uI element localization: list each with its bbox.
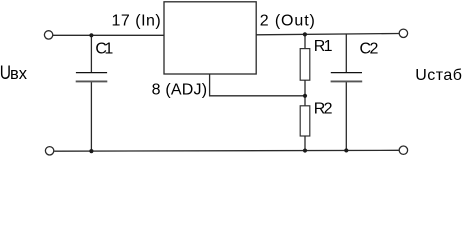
svg-text:8 (ADJ): 8 (ADJ): [152, 81, 208, 98]
resistor R1: [300, 49, 310, 81]
terminal output bottom: [399, 146, 407, 154]
junction output/R1: [303, 32, 307, 36]
junction bottom/R2: [303, 148, 307, 152]
resistor R2: [300, 106, 310, 136]
wire R1 top stem: [304, 34, 306, 48]
svg-text:R2: R2: [314, 100, 333, 117]
junction bottom/C2: [344, 148, 348, 152]
svg-text:C2: C2: [360, 41, 379, 58]
capacitor C1: [76, 73, 108, 82]
wire bottom ground net: [54, 149, 399, 152]
junction input/C1: [89, 33, 93, 37]
svg-text:вх: вх: [10, 65, 28, 83]
svg-text:Uстаб: Uстаб: [415, 67, 462, 84]
terminal input top: [44, 31, 52, 39]
label Uvx input voltage: [0, 61, 28, 83]
wire output net: [256, 34, 399, 35]
regulator IC box U1: [164, 2, 256, 74]
wire ADJ pin trace: [210, 74, 305, 96]
svg-text:2 (Out): 2 (Out): [260, 13, 316, 30]
terminal output top: [399, 29, 407, 37]
wire R1-R2 link: [304, 80, 306, 106]
svg-text:C1: C1: [95, 41, 113, 58]
svg-text:17 (In): 17 (In): [112, 13, 162, 30]
wire C1 upper stem: [90, 35, 92, 72]
terminal input bottom: [45, 147, 53, 155]
junction bottom/C1: [89, 149, 93, 153]
wire R2 bottom stem: [304, 136, 306, 151]
wire C1 lower stem: [90, 81, 92, 151]
wire C2 lower stem: [345, 81, 347, 150]
wire C2 upper stem: [345, 34, 347, 73]
capacitor C2: [331, 73, 363, 82]
svg-text:R1: R1: [314, 38, 333, 55]
wire input net: [53, 34, 164, 36]
junction ADJ/R2: [303, 94, 307, 98]
